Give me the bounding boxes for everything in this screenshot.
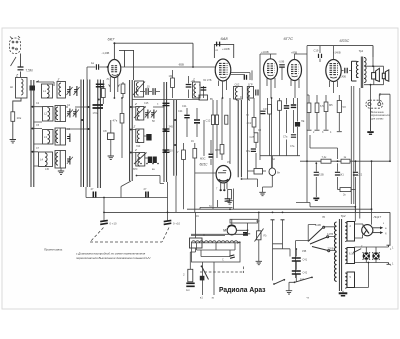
cap C45 dark [210,140,212,165]
speaker LS1 [372,68,380,81]
resistor R6 1М [172,70,174,78]
coil box Z1 [16,78,28,99]
svg-text:1мв: 1мв [300,278,305,281]
row1 wire [34,107,87,122]
coil box right [247,87,253,99]
Tr2 primary winding [335,222,337,281]
osc coil box [234,87,243,100]
svg-text:47а: 47а [246,150,251,153]
wire mesh [204,98,300,209]
cap C19 [319,46,321,62]
wire eye left [195,172,216,174]
wire row top [36,81,54,86]
svg-text:7,5В: 7,5В [319,174,324,177]
svg-text:6Г7С: 6Г7С [284,36,294,41]
switch rail S1f [174,100,177,176]
svg-text:ВЧ: ВЧ [210,98,213,101]
wire tone h [310,135,338,159]
cap C22 [291,135,296,137]
cap C29 [295,249,297,257]
cap C6 [67,134,70,143]
wire motor left down [203,262,215,295]
svg-text:1ГР: 1ГР [248,83,253,87]
resistor R12 [325,95,327,102]
svg-text:Ш: Ш [10,85,13,89]
cap C28 [230,255,235,258]
svg-text:С7а: С7а [290,145,295,148]
tube V2 [215,59,231,81]
coil L7 [134,153,147,167]
resistor R16 [211,115,214,125]
IF box T2 [55,128,66,145]
IF box T3 [55,151,66,169]
ground [108,156,114,159]
svg-text:Л10: Л10 [136,145,141,148]
svg-text:Z: Z [134,148,137,152]
svg-text:М: М [203,234,205,237]
cap C21 [291,105,296,107]
winding W2 [345,248,354,264]
resistor R5 [122,82,124,84]
pilot lamp HL2 [372,252,379,259]
trimmer dark blob [30,86,36,91]
row3 wire [34,152,38,166]
antenna socket X1 [10,36,21,54]
trimmer C10 [151,110,157,119]
motor winding row [192,241,241,243]
svg-text:0·+10: 0·+10 [110,222,117,226]
coil L4 [39,152,53,167]
voltage selector [308,226,330,252]
cap rails r2 [163,129,170,131]
svg-text:С40Б: С40Б [340,76,346,79]
cap C20 [284,106,289,108]
lamp E1 [269,168,276,176]
wire V2 anode right [231,70,252,80]
resistor R28 [102,80,104,89]
svg-text:Радиола Араз: Радиола Араз [219,287,266,294]
svg-text:-1,4ЗВ: -1,4ЗВ [102,51,110,55]
lamp terminals [387,245,391,264]
svg-text:НЕ: НЕ [301,120,305,123]
svg-text:С15: С15 [144,102,149,105]
svg-text:М5: М5 [329,103,333,107]
shielded wire [238,100,241,177]
rectifier terminals [373,228,380,233]
resistor R11 [316,95,318,103]
svg-text:переключателя Выключения диапа: переключателя Выключения диапазонов позы… [76,256,150,260]
cap C31 [295,262,297,270]
svg-text:127В: 127В [327,232,333,236]
cap C27 dark [186,283,194,286]
svg-text:С42: С42 [303,272,308,275]
trimmer C7 [67,156,73,165]
grid feed wire [87,67,108,80]
extra junction dots [103,65,391,263]
svg-text:+85В: +85В [291,51,297,55]
ground under T3 [60,168,62,171]
resistor R2 [120,114,124,124]
svg-text:110: 110 [169,149,174,153]
trimmer C2 [67,86,73,96]
svg-text:С7а: С7а [283,136,288,139]
wire L1 riser [371,161,373,224]
coil L6 [136,129,144,143]
primary winding box [352,61,359,81]
coil L3 [43,130,54,145]
svg-text:R): R) [264,234,267,238]
tube V5 [326,60,341,82]
coil L2 [43,107,54,122]
svg-text:6П3С: 6П3С [340,39,350,43]
arrow to socket [11,57,17,66]
svg-text:1в: 1в [91,61,95,65]
box above motor [230,219,258,223]
svg-text:7,5М: 7,5М [26,69,33,73]
cap C34 [355,161,357,212]
resistor R14 [321,159,331,163]
wire bus top B [307,46,373,57]
winding W1 [345,222,354,242]
svg-text:С22: С22 [358,174,363,177]
resistor R13 [338,95,340,101]
wire speaker bottom [364,79,384,131]
wire antenna down [20,54,22,78]
resistor R18 [220,145,224,155]
resistor R19 [252,118,256,128]
coil box Z7 [133,81,145,97]
wire step [137,176,165,184]
bus L0 stub [200,200,233,209]
resistor R10 [308,95,310,103]
svg-text:L3: L3 [44,135,48,139]
cap C30 [281,68,283,81]
wire selector left [296,225,316,278]
cap C23 dark [295,122,300,127]
svg-text:6К7: 6К7 [108,37,116,42]
wire AVC line [121,66,216,68]
cap C48 [256,90,258,96]
resistor R21 [268,105,272,115]
wire lamp return [355,263,369,288]
resistor box R24 [254,169,263,175]
mains switch S3 [295,277,313,282]
svg-text:Тр2: Тр2 [341,214,346,218]
switch rail S1b0 [81,80,84,188]
mains switch S3b [274,280,284,285]
extended column wires [184,168,195,212]
trimmer C3 [74,86,80,96]
tube V6 [216,166,231,183]
primary rungs [273,244,283,249]
pickup socket X2 [366,94,390,108]
transformer Tr1 core [361,57,362,89]
svg-text:5А: 5А [272,158,275,161]
wire pickup ground [370,108,372,131]
switch rail S1c [98,80,101,189]
Tr2 core [339,219,341,291]
coil L5 [134,107,146,121]
IF can top box [199,95,208,100]
svg-text:Прием-связь: Прием-связь [44,248,63,252]
tube V6 pins [221,182,227,191]
resistor R29 [225,115,228,124]
row1 wire [132,106,164,108]
wire from shield [242,179,258,187]
svg-text:С8: С8 [103,129,107,133]
cap rails r3 [163,150,170,152]
motor wire end bar [245,230,250,234]
cap C26 dark [146,192,148,198]
tube V4 pins [291,79,299,98]
svg-text:Z: Z [133,125,136,129]
winding W3 [345,272,354,288]
switch rail S1b [87,80,90,188]
svg-text:345: 345 [169,125,174,129]
svg-text:6П0: 6П0 [133,168,138,171]
switch S2 [202,266,209,280]
svg-text:.10: .10 [146,85,150,89]
resistor R25 [188,269,193,282]
wire B+ down [351,86,360,219]
resistor R17 [215,115,218,125]
trimmer C4 [67,109,73,118]
secondary winding [364,58,366,83]
tube V2 pins [219,80,227,98]
svg-text:для схемы: для схемы [371,117,384,120]
bus L2 [104,212,390,245]
cap C24 [251,149,256,151]
switch rail S1e [164,82,167,182]
tube V3 [264,59,278,79]
svg-text:Z: Z [134,102,137,106]
coil box Z8 [193,82,201,98]
tube V1 pins [110,77,118,98]
svg-text:220В: 220В [328,246,334,250]
wire row top line [132,99,200,101]
motor frame [192,243,241,262]
resistor R23 [228,190,232,200]
svg-text:С24: С24 [178,110,183,113]
rectifier circle [362,225,373,236]
tube V1 [108,60,121,78]
row3 wire [132,153,148,159]
svg-text:С: С [199,84,201,87]
cap C40 [341,70,351,72]
resistor R15 [341,159,350,163]
wire mid [111,98,122,158]
svg-text:6А8: 6А8 [221,36,229,41]
relay box K1 [190,238,203,248]
svg-text:1702: 1702 [93,112,99,115]
svg-text:Тр1: Тр1 [359,49,364,53]
cap C11 [186,108,188,137]
cap C46 [261,111,266,113]
Tr2 ground [342,291,344,293]
pot R26 [258,212,260,230]
svg-text:-85В: -85В [178,63,184,67]
wire bus top A [114,43,193,67]
caps C13 C14 [140,91,160,93]
cap C8 box [108,133,115,140]
bus L1 [187,208,372,210]
ground [10,140,16,143]
misc value labels [36,96,392,281]
svg-text:+140В: +140В [333,50,341,54]
svg-text:Л2 1/7Б: Л2 1/7Б [203,79,212,82]
switch rail S1d [130,80,133,181]
cap C32 [315,163,317,197]
cap C16 [217,42,220,47]
wire screen dropper [307,46,309,203]
eye box wires [233,189,235,210]
coil L1 [42,84,53,98]
dark cap between rails [93,105,104,108]
row2 wire [132,130,146,137]
lamp wires [355,247,389,263]
dark trimmer blob [146,134,151,141]
svg-text:5Л: 5Л [343,105,346,109]
svg-text:1К1: 1К1 [340,174,345,177]
svg-text:С37: С37 [263,107,268,111]
svg-text:1М: 1М [169,74,173,78]
cap C17 [244,75,246,80]
IF box T1 [55,106,66,122]
tube V4 [288,60,302,81]
wire top right power [354,207,356,222]
svg-text:С11: С11 [182,104,187,108]
svg-text:47к: 47к [113,119,118,123]
svg-text:+140В: +140В [222,47,230,51]
bus L3 [296,203,355,207]
wire dial terminals [100,220,171,224]
svg-text:L4: L4 [40,158,44,162]
wire rail ends [104,176,176,221]
switch rail S1a [31,80,34,187]
svg-text:С25: С25 [250,135,255,139]
cap C12 [196,108,198,137]
ground speaker return [367,131,373,135]
svg-text:С41: С41 [303,259,308,262]
cap C33 [337,163,339,189]
pilot lamp HL1 [363,252,370,259]
cap C25 dark [93,192,95,198]
svg-text:15В: 15В [302,250,307,253]
svg-text:L1: L1 [43,89,47,93]
tube V3 pins [267,78,275,98]
svg-text:ЛЦ1Т: ЛЦ1Т [373,215,382,219]
capacitor C1 [18,67,24,70]
resistor R22 [278,101,282,111]
svg-text:Z: Z [192,78,195,82]
lamp feed switch [354,249,361,253]
dark blob caps row3 [148,157,152,164]
speaker LS2 [382,70,389,81]
dashed dial box [90,228,169,243]
svg-text:М3С: М3С [200,157,206,161]
resistor R4 [194,143,196,168]
cap C18 [203,86,205,98]
row2 wire [34,129,87,145]
dark cap rails r1 [163,103,170,105]
svg-text:6,5: 6,5 [320,104,324,108]
cap C47 [225,199,231,201]
wire primary b [283,220,291,257]
anode box above V2 [214,44,233,58]
junction dots [32,42,177,153]
dark cap row A rails [96,84,105,87]
wire rail2 down [86,187,168,198]
wire Tr1 top [364,46,384,74]
resistor R1 [11,112,15,122]
svg-text:130: 130 [45,168,50,171]
svg-text:-0,9В: -0,9В [279,61,285,64]
coil box Z2 [57,82,66,99]
svg-text:С12: С12 [206,119,211,123]
svg-text:з: з [383,222,384,225]
resistor R3 [183,143,185,168]
svg-text:R7Б: R7Б [215,148,220,152]
wire tone line [300,94,390,161]
wire to R1 [13,98,21,139]
svg-text:С: С [222,259,224,262]
dashed motor border [200,267,244,274]
svg-text:6Е5С: 6Е5С [200,162,209,166]
svg-text:+143В: +143В [261,50,269,54]
small cap near rail [96,64,98,70]
wire motor [232,219,248,230]
wire primary a [272,220,274,281]
trimmer C5 [73,109,79,118]
svg-text:С62: С62 [235,83,240,87]
svg-text:4С2: 4С2 [247,121,252,125]
trimmer C9 [145,110,151,119]
tube V5 pins [330,81,338,93]
resistor R20 [254,133,258,143]
svg-text:L2: L2 [44,112,48,116]
resistor R27 2k [338,189,341,191]
wire above motor windings [191,234,248,235]
svg-text:Z: Z [57,78,60,82]
svg-text:10к: 10к [17,116,22,120]
svg-text:С19: С19 [314,49,319,53]
grid cap bar [119,50,134,80]
cap C15 [188,76,190,98]
svg-text:0·+10: 0·+10 [173,222,180,226]
